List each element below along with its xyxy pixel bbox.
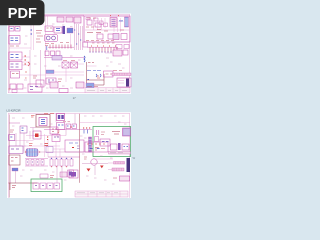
resistor R105 box	[104, 71, 114, 77]
red dots	[47, 137, 48, 140]
optocoupler U204 dark pair	[57, 114, 65, 121]
net labels	[84, 157, 87, 159]
L201 stripes	[29, 149, 37, 157]
CN101 wires	[118, 81, 124, 84]
wire trunk	[86, 62, 88, 87]
wires from U201	[30, 128, 36, 140]
wire	[23, 151, 93, 153]
capacitor drops	[84, 130, 88, 134]
diode D202	[68, 170, 74, 177]
junction dots	[25, 56, 26, 64]
wire	[9, 122, 20, 124]
capacitor C111	[51, 51, 55, 56]
title block dividers	[98, 88, 120, 93]
label	[113, 177, 117, 179]
resistor R208	[40, 174, 48, 178]
svg-text:LG 42PC3R: LG 42PC3R	[7, 108, 21, 112]
label	[63, 60, 75, 62]
bottom rail wire	[9, 182, 38, 184]
capacitor comb row B	[48, 156, 80, 158]
transformer T101	[110, 18, 117, 28]
wire	[85, 29, 129, 31]
BB202 pins	[114, 168, 122, 171]
block B caps	[11, 64, 19, 67]
fuse F101 box	[45, 35, 58, 42]
U212 marks	[77, 146, 80, 149]
resistor R101 label	[87, 17, 96, 19]
resistor R102	[86, 18, 90, 20]
net label VIN	[87, 32, 101, 34]
cap dots	[35, 185, 58, 187]
box U202	[50, 127, 58, 134]
bus bar BB201	[114, 162, 125, 165]
capacitor C206	[122, 144, 129, 150]
red bits	[45, 144, 49, 146]
wire	[9, 145, 26, 147]
capacitor C112	[56, 51, 60, 56]
U204 dies	[58, 115, 61, 119]
comb B top dots	[51, 157, 72, 159]
small boxes row	[12, 90, 17, 93]
bus wire	[44, 129, 92, 131]
left stack block C	[11, 71, 20, 78]
X-diode D111	[62, 62, 69, 68]
diode D101	[87, 20, 92, 25]
inductor L202	[120, 176, 130, 181]
regulator U201 inner	[39, 118, 47, 126]
transformer T102 striped winding	[125, 17, 129, 27]
bottom bar of H201	[109, 152, 131, 155]
capacitor C209	[40, 183, 46, 189]
svg-text:PDF: PDF	[8, 6, 37, 22]
connector CN201	[127, 158, 131, 172]
C206 dots	[124, 146, 129, 148]
connector J103	[74, 17, 81, 23]
capacitor C211	[54, 183, 60, 189]
label row	[60, 42, 69, 44]
BB201 pins	[116, 162, 124, 165]
net label MEA	[87, 70, 96, 72]
U211 top pins	[87, 143, 105, 145]
connector J101	[57, 17, 64, 22]
module M201	[123, 128, 131, 136]
red node	[71, 126, 72, 128]
net label	[112, 132, 120, 135]
top bus wire 2	[36, 16, 84, 18]
svg-text:W: W	[133, 156, 136, 160]
junction dots on harness	[74, 30, 81, 44]
capacitor C116	[10, 84, 16, 89]
left net labels	[10, 130, 14, 132]
label above U201	[44, 113, 54, 115]
capacitor C203	[72, 124, 77, 129]
mid bus wire	[44, 57, 84, 59]
capacitor C210	[47, 183, 53, 189]
polarized cap C104	[63, 26, 66, 34]
harness wire bundle	[75, 23, 83, 50]
U210 marks	[11, 158, 18, 162]
title block table page1	[85, 88, 130, 93]
U203 dots	[54, 136, 59, 138]
line filter LF101 box	[9, 36, 20, 45]
D202 die	[69, 172, 72, 176]
U205 dots	[58, 124, 64, 126]
label	[33, 76, 37, 78]
wires	[82, 164, 108, 176]
capacitor C202	[66, 124, 71, 129]
IC U205	[57, 123, 65, 130]
net label AC-L	[36, 31, 43, 43]
diode row D102-D110	[48, 46, 74, 48]
arrow marks	[28, 62, 30, 66]
capacitor C123	[116, 45, 122, 49]
diode D201	[46, 147, 53, 153]
inductor L101 arcs	[119, 21, 123, 22]
CX inner dots	[11, 28, 19, 30]
resistor marks	[97, 76, 100, 78]
label	[10, 45, 19, 47]
red label	[29, 144, 33, 146]
transistor Q202 circle	[91, 159, 97, 165]
label	[63, 121, 70, 123]
wire	[22, 57, 30, 65]
resistor R106	[76, 82, 84, 88]
label row under U101	[86, 40, 114, 42]
U211 lower marks	[90, 148, 100, 150]
wire drops below comb	[57, 166, 62, 183]
IC U107	[113, 50, 122, 56]
M201 stripes	[124, 130, 130, 134]
label 17V	[50, 176, 54, 178]
green highlight box H202	[31, 179, 62, 192]
top bus wire	[44, 14, 84, 16]
bridge BR101	[54, 27, 62, 33]
primary block U101 outline	[84, 16, 130, 42]
label row above pins	[92, 42, 115, 44]
capacitor C122	[104, 23, 108, 27]
capacitor C124	[124, 45, 129, 49]
left stack block A	[9, 52, 22, 60]
bar text	[110, 152, 123, 154]
die	[35, 134, 39, 138]
capacitor C101	[95, 23, 101, 27]
capacitor C117	[17, 84, 23, 89]
IC U105	[46, 78, 56, 84]
wire below H201	[95, 158, 113, 160]
blue dots	[46, 47, 47, 49]
relay K101 contacts	[47, 27, 53, 29]
box mid-left	[33, 131, 41, 139]
J104 pins	[90, 47, 117, 51]
net label	[12, 186, 16, 188]
U212 label	[69, 142, 78, 144]
U202 marks	[52, 129, 57, 132]
thermistor TH101	[46, 36, 50, 40]
scattered net labels page1	[24, 20, 125, 88]
inductor L102 blue	[84, 56, 85, 62]
vertical wires top	[56, 114, 75, 136]
IC U206 bars	[97, 130, 99, 135]
R105 inner	[106, 73, 113, 75]
title block text	[87, 89, 127, 91]
capacitor C113	[46, 70, 54, 74]
IC U103	[121, 34, 127, 40]
sheet border frame	[8, 14, 129, 92]
wire bundle left of U101	[94, 18, 102, 30]
page 2 sheet	[7, 112, 131, 198]
main red trunk	[79, 114, 81, 183]
U108 pins	[30, 87, 38, 90]
label	[113, 70, 122, 72]
comb A caps	[26, 160, 29, 166]
capacitor C103	[108, 34, 114, 39]
regulator U201 outer	[36, 115, 50, 128]
left inner border	[8, 115, 10, 198]
capacitor C120	[83, 42, 88, 47]
Q201 die	[71, 172, 76, 177]
inductor L201 striped drum	[26, 149, 38, 157]
IC U104 striped	[52, 56, 62, 61]
ground GND201	[87, 169, 91, 172]
scattered net labels page2	[12, 116, 127, 184]
resistor labels in U101	[86, 27, 124, 31]
wire loop	[87, 74, 105, 85]
dividers	[75, 191, 128, 197]
capacitor C208	[33, 183, 39, 189]
bus bar BB202	[112, 168, 124, 171]
thermistor TH102	[52, 36, 56, 40]
diode D103	[99, 21, 103, 25]
wires to CN201	[108, 163, 113, 170]
transformer T101 windings	[112, 20, 116, 26]
capacitor CX101	[9, 27, 14, 32]
label	[58, 79, 62, 82]
red specks	[9, 72, 28, 89]
comb A dots	[27, 161, 43, 163]
vertical wires	[11, 165, 16, 183]
vertical wire	[30, 50, 41, 87]
block C marks	[12, 73, 19, 75]
viewer background	[0, 0, 149, 198]
wire	[20, 34, 84, 75]
vertical main bus wire	[46, 16, 48, 86]
wire	[87, 65, 97, 67]
text	[77, 192, 118, 194]
block A caps	[11, 55, 19, 58]
box U203 purple fill	[52, 135, 60, 142]
H201 labels	[95, 132, 105, 149]
net label	[88, 62, 94, 64]
rail stub wire	[9, 183, 11, 190]
capacitor C105	[67, 28, 73, 33]
capacitor C204	[111, 144, 118, 150]
label above title block	[87, 86, 98, 88]
relay K101	[45, 26, 53, 32]
capacitor C121	[94, 18, 98, 21]
U209 dots	[11, 148, 19, 150]
capacitor C118	[59, 89, 68, 93]
IC U108	[28, 84, 42, 92]
capacitor C212	[95, 137, 99, 142]
MOSFET Q101	[36, 80, 44, 87]
junction dot	[88, 79, 89, 81]
net label F1	[45, 44, 54, 46]
title block table page2	[75, 191, 128, 197]
U201 die	[41, 120, 45, 124]
U105 pins	[48, 80, 54, 82]
comb B bottom dots	[51, 166, 67, 168]
connector pin row J104	[87, 46, 118, 48]
IC U210	[9, 155, 20, 165]
connector CN101 body	[126, 79, 129, 87]
C201 dots	[22, 128, 24, 131]
connector J102	[66, 17, 73, 22]
left inner border page1	[8, 16, 10, 92]
wire pair	[31, 16, 34, 50]
node dots	[91, 45, 116, 47]
capacitor C102	[97, 34, 103, 39]
LF101 windings	[11, 38, 19, 41]
X-diode D112	[71, 62, 78, 68]
wire	[54, 68, 84, 82]
IC U209	[9, 146, 23, 154]
junction dots	[31, 30, 33, 34]
capacitor C207	[12, 168, 18, 171]
wire	[53, 149, 65, 157]
U212 die dot	[72, 147, 74, 149]
page 1 sheet	[7, 14, 131, 94]
wire under badge	[20, 24, 44, 26]
red dots at L201	[25, 151, 40, 153]
capacitor CX102	[15, 27, 20, 32]
inductor L103 glyphs	[96, 74, 101, 77]
inductor L104	[50, 82, 58, 88]
cap dots	[67, 125, 75, 127]
node dots	[110, 15, 119, 17]
J104 pads	[89, 51, 117, 53]
red marks below U205	[58, 131, 60, 133]
U208 dot	[10, 136, 12, 138]
connector CN101 block	[117, 78, 131, 87]
ground GND202	[100, 166, 104, 169]
capacitor C119 striped	[86, 83, 94, 88]
svg-text:17: 17	[73, 96, 77, 100]
vertical connector strip CN202	[89, 137, 92, 152]
U207 dots	[102, 141, 109, 143]
control box U212	[65, 140, 84, 152]
IC U102	[113, 34, 119, 40]
transistor Q201 box	[69, 170, 78, 178]
sheet border frame page2	[8, 113, 129, 197]
capacitor C115	[123, 50, 128, 55]
wire mesh	[10, 123, 131, 158]
control block U211	[85, 142, 108, 152]
label	[97, 70, 101, 72]
red label left of U201	[31, 116, 35, 118]
left box U208	[9, 135, 15, 141]
wire	[105, 52, 113, 54]
junction dots	[83, 127, 90, 129]
capacitor C110	[45, 51, 49, 56]
capacitor C201 pair box	[20, 126, 27, 133]
wire bundle in U101	[105, 18, 121, 32]
bridge BR101 glyph	[56, 29, 60, 31]
BB101 pins	[115, 73, 128, 76]
capacitor comb row A	[25, 159, 48, 167]
bus wire 2	[26, 135, 66, 137]
wire	[9, 47, 31, 49]
small bits in H201	[95, 148, 98, 150]
inductor L203	[60, 172, 67, 177]
green highlight box H201	[93, 127, 131, 157]
IC U207	[100, 139, 110, 146]
left stack block B	[9, 62, 22, 70]
bus bar BB101	[112, 73, 131, 76]
vertical wires	[16, 133, 24, 151]
PDF badge	[0, 0, 45, 25]
polarized cap C205	[118, 143, 121, 150]
